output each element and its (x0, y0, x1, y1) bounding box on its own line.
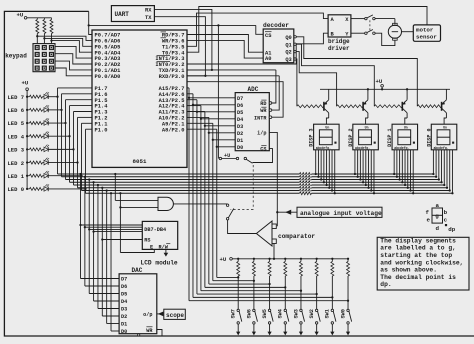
wire P1 data bus line 7 (58, 173, 434, 175)
svg-text:SW0: SW0 (340, 309, 346, 318)
display DISP 3 pin g (331, 150, 333, 191)
decoder output bubble Q1 (294, 43, 296, 45)
wire SW5 to ground (269, 324, 271, 332)
svg-text:D6: D6 (237, 103, 243, 109)
wire decoder Q3 to driver base (295, 59, 298, 106)
wire P1 data bus line 1 (82, 190, 450, 192)
junction rail SW7 (237, 258, 239, 260)
display DISP 1 pin f (407, 150, 409, 188)
display DISP 0 pin c (438, 150, 440, 180)
svg-text:ADC: ADC (248, 86, 259, 93)
wire keypad column 2 to 8051 (43, 37, 45, 39)
LED D1 (44, 173, 48, 178)
ground DAC pin (138, 334, 140, 336)
svg-text:i/p: i/p (257, 131, 266, 137)
wire bus branch to DAC D7 (79, 173, 81, 175)
junction rail SW0 (347, 258, 349, 260)
svg-text:P1.0: P1.0 (95, 127, 108, 133)
svg-text:P0.0/AD0: P0.0/AD0 (95, 74, 121, 80)
svg-text:DISP 0: DISP 0 (426, 128, 432, 146)
wire P2.7 bus: ADC D7 and SW7 (187, 87, 189, 89)
svg-text:SW7: SW7 (231, 309, 237, 318)
svg-text:8051: 8051 (133, 158, 147, 165)
resistor LED R1 (27, 175, 29, 177)
resistor base R11 (374, 105, 402, 108)
svg-text:abcdefg.: abcdefg. (433, 146, 448, 150)
svg-text:Q0: Q0 (285, 35, 291, 41)
junction TX WR (204, 75, 206, 77)
display DISP 2 pin c (359, 150, 361, 180)
resistor LED R5 (27, 122, 29, 124)
wire DAC o/p to scope (157, 313, 162, 315)
wire LED 0 to bus and P1.0 (48, 188, 85, 190)
svg-text:The decimal point is: The decimal point is (380, 274, 456, 281)
svg-text:DISP 1: DISP 1 (387, 128, 393, 146)
wire keypad column 1 to 8051 (36, 35, 38, 37)
wire P1 data bus line 5 (66, 179, 439, 181)
wire P2.3 bus: ADC D3 and SW3 (187, 111, 205, 113)
wire UART RX to P3.1 (154, 9, 212, 70)
wire P1 data bus line 4 (70, 181, 442, 183)
motor sensor U7 (413, 25, 440, 41)
wire motor to sensor (402, 31, 414, 33)
display DISP 2 pin d (362, 150, 364, 182)
svg-text:D2: D2 (121, 314, 127, 320)
junction analogue input node (276, 211, 278, 213)
resistor segment R20 (300, 172, 312, 176)
resistor pullup SW1 (331, 259, 333, 262)
svg-text:+U: +U (220, 256, 227, 263)
display DISP 1 pin . (412, 150, 414, 193)
svg-text:c: c (444, 216, 448, 223)
wire ADC i/p to comparator input (269, 132, 277, 226)
svg-text:SW1: SW1 (325, 309, 331, 318)
svg-text:E: E (150, 244, 153, 250)
svg-text:LED 6: LED 6 (8, 107, 25, 114)
svg-text:SW5: SW5 (262, 309, 268, 318)
wire LCD DB4 (92, 230, 94, 232)
svg-text:RX: RX (145, 8, 152, 14)
wire SW1 to ground (331, 324, 333, 332)
svg-text:LED 3: LED 3 (8, 147, 25, 154)
wire P3.5 to bridge A (187, 13, 328, 46)
svg-text:Q2: Q2 (285, 50, 291, 56)
display DISP 0 pin f (446, 150, 448, 188)
svg-text:D0: D0 (121, 329, 127, 335)
display DISP 1 pin b (396, 150, 398, 177)
wire comparator output to S2 (228, 220, 257, 234)
decoder output bubble Q2 (294, 50, 296, 52)
wire LCD E (119, 206, 121, 208)
junction LED rail row 1 (26, 175, 28, 177)
wire ADC RD to P3.1 row (269, 102, 272, 105)
svg-text:SW4: SW4 (278, 309, 284, 318)
wire DAC WR to ground (157, 330, 162, 337)
display DISP 3 pin c (320, 150, 322, 180)
wire keypad row 1 to 8051 (55, 46, 92, 58)
wire LCD DB7 (79, 224, 81, 226)
switch S2 comparator select (226, 204, 228, 206)
svg-text:D5: D5 (237, 110, 243, 116)
display DISP 3 pin d (323, 150, 325, 182)
wire SW4 to ground (284, 324, 286, 332)
junction CS line to ADC CS switch (217, 24, 219, 26)
switch SW1 (331, 276, 333, 309)
wire X to motor (375, 18, 395, 20)
wire keypad column 3 (51, 18, 53, 20)
wire keypad row 4 to 8051 (55, 68, 92, 76)
LED D3 (44, 147, 48, 152)
resistor LED R7 (27, 96, 29, 98)
display DISP 0 pin e (443, 150, 445, 185)
svg-text:scope: scope (166, 312, 184, 319)
switch SW4 (284, 276, 286, 309)
resistor keypad pullup R1 (36, 20, 39, 34)
wire keypad column 1 (36, 18, 38, 20)
svg-text:a: a (435, 202, 439, 209)
transistor Q1 digit driver (323, 102, 325, 111)
display DISP 0 pin d (441, 150, 443, 182)
resistor pullup SW3 (300, 259, 302, 262)
svg-text:RS: RS (144, 238, 150, 244)
resistor keypad pullup R2 (43, 20, 46, 34)
junction LED rail row 6 (26, 109, 28, 111)
wire bus branch to DAC D1 (106, 189, 108, 191)
svg-text:DISP 2: DISP 2 (348, 128, 354, 146)
svg-text:abcdefg.: abcdefg. (316, 146, 331, 150)
junction rail SW3 (300, 258, 302, 260)
keypad (33, 44, 55, 72)
resistor base R10 (417, 105, 441, 108)
display DISP 1 pin e (404, 150, 406, 185)
display DISP 0 (431, 124, 457, 150)
display DISP 3 pin a (315, 150, 317, 174)
display DISP 2 pin e (365, 150, 367, 185)
display DISP 2 pin a (354, 150, 356, 174)
wire UART TX to P3.0 (154, 17, 205, 76)
wire comparator input 2 to +U rail (273, 244, 275, 259)
display DISP 0 pin b (435, 150, 437, 177)
wire SW3 to ground (300, 324, 302, 332)
switch SW7 (237, 276, 239, 309)
wire LED 4 to bus and P1.4 (48, 135, 69, 137)
svg-text:CS: CS (265, 33, 272, 39)
wire P3.7 to decoder A1 (187, 35, 263, 53)
svg-text:+U: +U (22, 80, 29, 87)
svg-text:dp: dp (448, 226, 455, 233)
resistor segment R27 (300, 191, 312, 195)
resistor pullup SW0 (347, 259, 349, 262)
wire AND gate output to switch (173, 203, 227, 205)
svg-text:UART: UART (115, 11, 130, 18)
svg-text:b: b (444, 209, 448, 216)
svg-text:The display segments: The display segments (380, 237, 456, 244)
wire sensor to P3.4 (187, 7, 427, 53)
svg-text:SW2: SW2 (309, 309, 315, 318)
wire keypad row 3 to 8051 (55, 61, 92, 70)
svg-text:DAC: DAC (132, 267, 143, 274)
wire keypad column 3 to 8051 (50, 39, 52, 41)
svg-text:TX: TX (145, 15, 152, 21)
resistor pullup SW7 (237, 259, 239, 262)
svg-text:CS: CS (260, 147, 266, 153)
svg-text:Un: Un (325, 125, 329, 129)
resistor pullup SW6 (253, 259, 255, 262)
svg-text:are labelled a to g,: are labelled a to g, (380, 245, 456, 252)
wire LED 1 to bus and P1.1 (48, 175, 81, 177)
wire bus branch to DAC D0 (110, 192, 112, 194)
resistor pullup SW4 (284, 259, 286, 262)
svg-text:decoder: decoder (263, 22, 289, 29)
svg-text:WR: WR (146, 328, 153, 334)
wire LED 5 to bus and P1.5 (48, 122, 65, 124)
transistor Q3 digit driver (401, 102, 403, 111)
svg-text:comparator: comparator (278, 233, 315, 240)
wire border to P0.7 and decoder CS line (89, 11, 92, 34)
junction RX RD (211, 69, 213, 71)
LED D5 (44, 121, 48, 126)
svg-text:LED 1: LED 1 (8, 173, 25, 180)
wire SW2 to ground (316, 324, 318, 332)
display DISP 1 pin c (399, 150, 401, 180)
UART module (111, 6, 154, 22)
resistor segment R25 (300, 186, 312, 190)
transistor Q2 digit driver (362, 102, 364, 111)
switch SW6 (253, 276, 255, 309)
transistor Q4 digit driver (441, 102, 443, 111)
resistor base R12 (337, 105, 364, 108)
bridge driver U6 (328, 15, 351, 37)
junction LED rail row 7 (26, 96, 28, 98)
power +U display rail (320, 88, 450, 90)
svg-text:analogue input voltage: analogue input voltage (300, 210, 382, 217)
svg-text:starting at the top: starting at the top (380, 252, 452, 259)
svg-text:driver: driver (328, 45, 350, 52)
svg-text:abcdefg.: abcdefg. (355, 146, 370, 150)
wire P2.4 bus: ADC D4 and SW4 (187, 105, 201, 107)
svg-text:D6: D6 (121, 284, 127, 290)
wire SW6 to ground (253, 324, 255, 332)
junction rail SW2 (316, 258, 318, 260)
display DISP 0 pin g (449, 150, 451, 191)
LED D6 (44, 108, 48, 113)
switch S3 motor X (351, 18, 365, 20)
wire bus branch to DAC D5 (88, 178, 90, 180)
resistor pullup SW2 (316, 259, 318, 262)
svg-text:D4: D4 (121, 299, 127, 305)
display DISP 3 pin . (334, 150, 336, 193)
svg-text:f: f (426, 209, 430, 216)
display DISP 2 pin . (373, 150, 375, 193)
wire keypad column 2 (43, 18, 45, 20)
svg-text:as shown above.: as shown above. (380, 267, 437, 274)
junction rail SW5 (268, 258, 270, 260)
svg-text:and working clockwise,: and working clockwise, (380, 259, 463, 266)
wire P2.2 bus: ADC D2 and SW2 (187, 116, 209, 118)
scope (164, 309, 186, 319)
svg-text:SW3: SW3 (293, 309, 299, 318)
display DISP 1 (392, 124, 418, 150)
LED D0 (44, 187, 48, 192)
resistor segment R22 (300, 178, 312, 182)
junction rail SW1 (331, 258, 333, 260)
svg-text:D1: D1 (237, 138, 243, 144)
wire P2.5 bus: ADC D5 and SW5 (187, 99, 197, 101)
wire bus branch to DAC D3 (97, 184, 99, 186)
resistor segment R24 (300, 183, 312, 187)
svg-text:D7: D7 (237, 96, 243, 102)
wire P1 data bus line 3 (74, 184, 445, 186)
resistor LED R3 (27, 148, 29, 150)
resistor LED R0 (27, 188, 29, 190)
wire P1 data bus line 0 (86, 192, 453, 194)
switch SW5 (269, 276, 271, 309)
wire P3.6 to decoder A0 (187, 40, 263, 58)
resistor pullup SW5 (269, 259, 271, 262)
ground LCD R/W (165, 249, 167, 253)
display DISP 1 pin a (393, 150, 395, 174)
switch SW3 (300, 276, 302, 309)
svg-text:DISP 3: DISP 3 (309, 128, 315, 146)
svg-text:LCD module: LCD module (141, 260, 178, 267)
wire LED 6 to bus and P1.6 (48, 109, 61, 111)
wire ADC INTR (269, 116, 272, 119)
svg-text:D4: D4 (237, 117, 243, 123)
LED D2 (44, 160, 48, 165)
resistor LED R4 (27, 135, 29, 137)
resistor segment R21 (300, 175, 312, 179)
display DISP 0 pin a (432, 150, 434, 174)
wire P2.0 bus: ADC D0 and SW0 (187, 128, 217, 130)
junction LED rail row 0 (26, 188, 28, 190)
display DISP 2 pin b (357, 150, 359, 177)
wire CS line down to ADC CS switch (217, 25, 219, 158)
svg-text:LED 0: LED 0 (8, 186, 25, 193)
wire P3.2 to bridge B (187, 33, 328, 64)
svg-text:o/p: o/p (143, 312, 152, 318)
svg-text:WR: WR (260, 108, 267, 114)
wire ADC CS to select switch (253, 149, 273, 163)
junction LED rail row 2 (26, 161, 28, 163)
decoder output bubble Q0 (294, 36, 296, 38)
wire decoder Q0 to driver base (296, 37, 417, 106)
LED D4 (44, 134, 48, 139)
junction LED rail row 3 (26, 148, 28, 150)
svg-text:R/W: R/W (159, 244, 169, 250)
svg-text:+U: +U (376, 78, 383, 85)
svg-text:LED 4: LED 4 (8, 133, 25, 140)
svg-text:D1: D1 (121, 322, 127, 328)
wire LCD DB5 (88, 228, 90, 230)
wire LED 2 to bus and P1.2 (48, 162, 77, 164)
AND gate U2 (158, 197, 173, 210)
svg-text:d: d (435, 225, 439, 232)
svg-text:DB7-DB4: DB7-DB4 (144, 227, 166, 233)
comparator U5 (256, 221, 272, 246)
resistor keypad pullup R3 (50, 20, 53, 34)
svg-text:Q3: Q3 (285, 57, 291, 63)
display DISP 0 pin . (451, 150, 453, 193)
microcontroller U1 8051 (92, 30, 187, 167)
switch S4 motor Y (351, 32, 365, 34)
svg-text:Q1: Q1 (285, 42, 291, 48)
display DISP 3 pin f (328, 150, 330, 188)
mechanical link S3 S4 dashed (369, 20, 371, 31)
svg-text:dp.: dp. (380, 281, 391, 288)
wire SW0 to ground (347, 324, 349, 332)
wire LED 7 to bus and P1.7 (48, 96, 57, 98)
wire bus branch to DAC D4 (92, 181, 94, 183)
svg-text:LED 7: LED 7 (8, 94, 25, 101)
svg-text:e: e (427, 216, 431, 223)
svg-text:keypad: keypad (5, 53, 27, 60)
svg-text:A0: A0 (265, 56, 271, 62)
LCD module U8 (142, 221, 177, 249)
wire Y to motor (375, 33, 395, 45)
legend seven segment labelling (432, 208, 443, 223)
motor M1 (388, 25, 401, 38)
wire AND gate input 2 (119, 192, 121, 194)
wire P1 data bus line 2 (78, 187, 448, 189)
node analogue input voltage (277, 211, 297, 213)
wire decoder Q2 to driver base (296, 52, 336, 107)
svg-text:abcdefg.: abcdefg. (394, 146, 409, 150)
svg-text:D2: D2 (237, 131, 243, 137)
wire LED 3 to bus and P1.3 (48, 148, 73, 150)
junction LED rail row 5 (26, 122, 28, 124)
svg-text:INTR: INTR (254, 115, 267, 121)
wire bus branch to DAC D2 (101, 187, 103, 189)
resistor segment R26 (300, 189, 312, 193)
resistor segment R23 (300, 180, 312, 184)
svg-text:+U: +U (17, 11, 24, 18)
svg-text:LED 2: LED 2 (8, 160, 25, 167)
switch SW2 (316, 276, 318, 309)
display DISP 2 (353, 124, 379, 150)
wire SW7 to ground (237, 324, 239, 332)
wire decoder Q1 to driver base (296, 44, 374, 106)
LED D7 (44, 94, 48, 99)
svg-text:Un: Un (365, 125, 369, 129)
svg-text:D0: D0 (237, 145, 243, 151)
wire P2.6 bus: ADC D6 and SW6 (187, 93, 193, 95)
resistor LED R2 (27, 162, 29, 164)
display DISP 3 pin b (317, 150, 319, 177)
wire P2.1 bus: ADC D1 and SW1 (187, 122, 213, 124)
display DISP 3 (314, 124, 340, 150)
junction rail SW6 (253, 258, 255, 260)
wire keypad row 2 to 8051 (55, 54, 92, 64)
display DISP 1 pin d (401, 150, 403, 182)
svg-text:Un: Un (443, 125, 447, 129)
svg-text:LED 5: LED 5 (8, 120, 25, 127)
display DISP 2 pin f (368, 150, 370, 188)
junction border wire (88, 24, 90, 26)
resistor base R13 (297, 105, 324, 108)
junction rail SW4 (284, 258, 286, 260)
display DISP 3 pin e (326, 150, 328, 185)
svg-text:D7: D7 (121, 277, 127, 283)
wire LCD DB6 (84, 226, 86, 228)
resistor LED R6 (27, 109, 29, 111)
note display segments text (377, 237, 469, 290)
svg-text:g: g (435, 213, 439, 220)
svg-text:RXD/P3.0: RXD/P3.0 (159, 74, 185, 80)
svg-text:D3: D3 (121, 307, 127, 313)
display DISP 1 pin g (409, 150, 411, 191)
svg-text:sensor: sensor (416, 33, 437, 40)
wire ADC WR to P3.0 row (269, 109, 272, 112)
